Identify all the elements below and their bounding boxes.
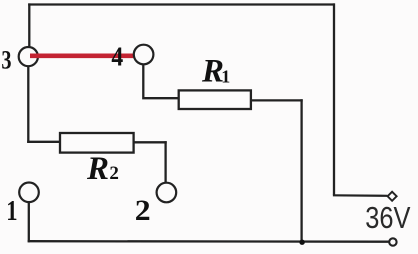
svg-text:1: 1 [221, 66, 230, 86]
wire: bottom horizontal to lower terminal [28, 240, 390, 243]
wire: node 1 down to bottom wire [28, 202, 30, 243]
wire: node 4 down then right to R1 [143, 65, 178, 99]
resistor R2 body [60, 133, 134, 153]
svg-text:2: 2 [109, 163, 119, 184]
wire: top horizontal from left branch to right branch [28, 3, 335, 5]
node 3 terminal circle [19, 47, 38, 66]
wire: horizontal to 36V terminal [333, 194, 388, 197]
wire: vertical from R1 down to bottom wire [300, 99, 302, 242]
red wire: slide contact from node 3 to node 4 [30, 53, 133, 58]
svg-text:2: 2 [135, 193, 151, 227]
wire: R1 right to vertical drop [252, 99, 303, 101]
node 1 terminal circle [19, 183, 39, 203]
wire: R2 right end to corner [134, 141, 167, 143]
wire: horizontal into R2 left end [27, 141, 60, 143]
svg-text:4: 4 [111, 41, 123, 72]
wire: left vertical from top wire down to node 3 [28, 3, 30, 47]
terminal: 36V upper terminal (small diamond) [388, 192, 397, 201]
resistor R1 body [179, 90, 251, 109]
wire: right vertical from top wire down to 36V terminal [333, 3, 335, 195]
svg-text:1: 1 [6, 194, 17, 226]
terminal: lower terminal circle [389, 238, 396, 245]
svg-text:R: R [86, 151, 109, 187]
junction dot where R1 branch meets bottom wire [299, 240, 304, 245]
node 2 terminal circle [157, 183, 177, 203]
svg-text:36V: 36V [365, 201, 410, 236]
wire: vertical down to node 2 [164, 141, 166, 183]
wire: left vertical from node 3 down to R2 [27, 66, 29, 143]
node 4 terminal circle [134, 45, 154, 65]
svg-text:3: 3 [1, 46, 11, 75]
